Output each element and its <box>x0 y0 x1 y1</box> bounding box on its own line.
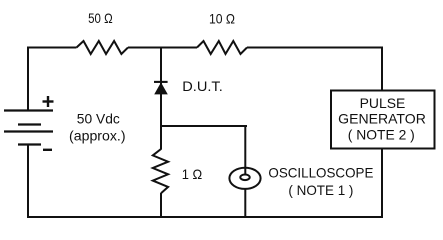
svg-text:50 Ω: 50 Ω <box>88 10 113 26</box>
wire top-right segment <box>247 47 382 49</box>
svg-text:1 Ω: 1 Ω <box>182 166 203 182</box>
svg-text:10 Ω: 10 Ω <box>209 11 235 27</box>
wire diode branch vertical <box>160 47 162 150</box>
svg-text:(approx.): (approx.) <box>69 128 126 144</box>
label NOTE 1 <box>288 182 353 198</box>
oscilloscope probe connector inner ellipse <box>240 175 249 181</box>
wire top-middle segment <box>128 47 197 49</box>
battery plus sign <box>43 96 54 107</box>
svg-text:( NOTE 2 ): ( NOTE 2 ) <box>348 127 415 143</box>
wire node to oscilloscope horizontal <box>161 125 247 127</box>
wire bottom rail <box>27 216 383 218</box>
label 10 ohm <box>209 11 235 27</box>
svg-text:PULSE: PULSE <box>360 95 406 111</box>
diode D.U.T. cathode bar <box>154 81 168 83</box>
label approx <box>69 128 126 144</box>
label 50 Vdc <box>77 111 120 127</box>
battery V1 50 Vdc plates <box>4 111 53 145</box>
svg-text:D.U.T.: D.U.T. <box>182 78 223 94</box>
svg-text:GENERATOR: GENERATOR <box>338 111 426 127</box>
wire top-left segment <box>28 47 77 49</box>
wire left vertical to battery <box>27 47 29 111</box>
svg-text:OSCILLOSCOPE: OSCILLOSCOPE <box>268 164 373 180</box>
wire oscilloscope branch upper <box>244 125 246 175</box>
label PULSE <box>360 95 406 111</box>
wire pulse generator branch upper <box>381 47 383 91</box>
svg-text:50 Vdc: 50 Vdc <box>77 111 120 127</box>
battery minus sign <box>43 149 52 151</box>
diode D.U.T. triangle <box>155 83 167 94</box>
wire pulse generator branch lower <box>381 149 383 219</box>
pulse generator box <box>331 91 435 149</box>
resistor R1 50 ohm zigzag <box>77 41 129 54</box>
wire left vertical below battery <box>27 145 29 219</box>
wire oscilloscope branch lower <box>244 189 246 218</box>
label OSCILLOSCOPE <box>268 164 373 180</box>
oscilloscope probe connector outer ellipse <box>229 168 260 189</box>
svg-text:( NOTE 1 ): ( NOTE 1 ) <box>288 182 353 198</box>
resistor R3 1 ohm vertical zigzag <box>153 149 168 193</box>
wire below 1 ohm resistor <box>160 193 162 218</box>
label GENERATOR <box>338 111 426 127</box>
label NOTE 2 <box>348 127 415 143</box>
label D.U.T. <box>182 78 223 94</box>
resistor R2 10 ohm zigzag <box>197 41 247 54</box>
label 50 ohm <box>88 10 113 26</box>
label 1 ohm <box>182 166 203 182</box>
